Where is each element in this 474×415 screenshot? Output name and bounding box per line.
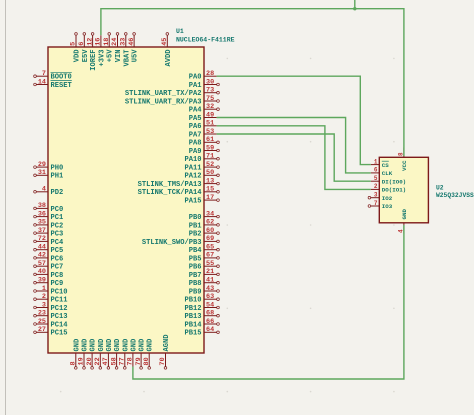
svg-text:U5V: U5V (132, 49, 140, 63)
svg-text:79: 79 (135, 357, 143, 365)
svg-text:VCC: VCC (401, 160, 408, 171)
U1 pin 6 (E5V) top (78, 33, 90, 63)
U1 pin 70 (AGND) bottom (159, 334, 171, 369)
svg-text:PB9: PB9 (189, 288, 202, 296)
U1 pin 21 (PB7) right (189, 268, 220, 280)
svg-text:3: 3 (42, 301, 46, 309)
U1 pin 20 (GND) bottom (86, 339, 98, 369)
U1 pin 62 (PB1) right (189, 219, 220, 231)
svg-text:PA7: PA7 (189, 131, 202, 139)
svg-text:PB4: PB4 (189, 247, 203, 255)
svg-text:PC15: PC15 (51, 330, 68, 338)
svg-text:GND: GND (114, 339, 122, 352)
svg-text:32: 32 (206, 103, 214, 111)
U1 pin 40 (PC8) left (34, 268, 64, 280)
U2 pin 6 (CLK) left (371, 167, 393, 177)
svg-text:PA4: PA4 (189, 107, 203, 115)
svg-text:47: 47 (102, 357, 110, 365)
U1 pin 75 (STLINK_UART_RX/PA3) right (125, 95, 219, 107)
svg-text:PA5: PA5 (189, 115, 202, 123)
U1 pin 59 (PA9) right (189, 144, 220, 156)
svg-text:VIN: VIN (115, 50, 123, 63)
svg-text:18: 18 (103, 38, 111, 46)
svg-text:PC11: PC11 (51, 297, 68, 305)
U1 pin 77 (GND) bottom (119, 339, 131, 369)
svg-text:STLINK_UART_TX/PA2: STLINK_UART_TX/PA2 (125, 90, 202, 98)
svg-text:PA8: PA8 (189, 140, 202, 148)
svg-text:2: 2 (374, 183, 378, 190)
U2 body W25Q32JVSS (379, 157, 428, 223)
U1 pin 61 (PA8) right (189, 136, 220, 148)
U1 pin 49 (PA5) right (189, 111, 217, 123)
svg-text:29: 29 (38, 161, 46, 169)
svg-text:VDD: VDD (74, 50, 82, 63)
U1 pin 51 (PA6) right (189, 120, 217, 132)
svg-text:53: 53 (206, 128, 214, 136)
svg-text:DI(IO0): DI(IO0) (382, 178, 406, 185)
U1 pin 73 (STLINK_UART_TX/PA2) right (125, 87, 219, 99)
U1 pin 44 (PC5) left (34, 244, 64, 256)
U2 pin 3 (IO2) left (368, 192, 393, 202)
svg-text:36: 36 (38, 210, 46, 218)
svg-text:PC14: PC14 (51, 321, 69, 329)
svg-text:80: 80 (143, 357, 151, 365)
svg-text:GND: GND (139, 339, 147, 352)
svg-text:PB2: PB2 (189, 231, 202, 239)
svg-text:49: 49 (206, 111, 214, 119)
U1 pin 57 (PC7) left (34, 260, 64, 272)
svg-text:PC4: PC4 (51, 239, 65, 247)
svg-text:28: 28 (206, 70, 214, 78)
svg-text:24: 24 (111, 38, 119, 46)
svg-text:68: 68 (206, 310, 214, 318)
svg-text:70: 70 (159, 357, 167, 365)
svg-text:IOREF: IOREF (90, 50, 98, 71)
svg-text:PC5: PC5 (51, 247, 64, 255)
svg-text:PB14: PB14 (184, 321, 202, 329)
U1 pin 78 (GND) bottom (127, 339, 139, 367)
svg-text:GND: GND (82, 339, 90, 352)
svg-text:23: 23 (38, 310, 46, 318)
svg-text:PC7: PC7 (51, 264, 64, 272)
svg-text:72: 72 (38, 235, 46, 243)
wire SPI MISO net: PA6 to U2 DO(IO1) (217, 126, 371, 190)
svg-text:E5V: E5V (82, 49, 90, 63)
svg-text:DO(IO1): DO(IO1) (382, 187, 406, 194)
svg-text:PC8: PC8 (51, 272, 64, 280)
svg-text:17: 17 (206, 194, 214, 202)
svg-text:14: 14 (38, 78, 46, 86)
svg-text:30: 30 (206, 78, 214, 86)
svg-text:19: 19 (78, 357, 86, 365)
U1 pin 14 (RESET) left (34, 78, 73, 90)
svg-text:STLINK_UART_RX/PA3: STLINK_UART_RX/PA3 (125, 98, 202, 106)
svg-text:NUCLEO64-F411RE: NUCLEO64-F411RE (176, 37, 235, 44)
svg-text:PB13: PB13 (184, 313, 201, 321)
svg-text:58: 58 (110, 357, 118, 365)
svg-text:69: 69 (206, 235, 214, 243)
svg-text:PD2: PD2 (51, 189, 64, 197)
U1 pin 3 (PC12) left (34, 301, 68, 313)
U1 body NUCLEO64-F411RE (48, 47, 204, 353)
U1 pin 39 (PC9) left (34, 277, 64, 289)
svg-text:2: 2 (42, 293, 46, 301)
svg-text:AVDD: AVDD (165, 50, 173, 67)
U2 pin 7 (IO3) left (368, 200, 393, 210)
svg-text:45: 45 (161, 38, 169, 46)
svg-text:43: 43 (206, 285, 214, 293)
U1 pin 34 (PB0) right (189, 210, 220, 222)
U1 pin 52 (PA11) right (184, 161, 219, 173)
U2 pin 1 (CS) left (371, 158, 389, 168)
U1 pin 71 (PA10) right (184, 153, 219, 165)
U1 pin 67 (PB5) right (189, 252, 220, 264)
wire SPI MOSI net: PA7 to U2 DI(IO0) (217, 134, 371, 181)
wire +3V3 net branch to off-screen top (354, 0, 356, 9)
U1 pin 66 (PB14) right (184, 318, 219, 330)
svg-text:PB12: PB12 (184, 305, 201, 313)
svg-text:35: 35 (38, 219, 46, 227)
U1 pin 63 (PB10) right (184, 293, 219, 305)
svg-text:15: 15 (206, 186, 214, 194)
U1 pin 64 (PB15) right (184, 326, 219, 338)
U1 pin 69 (STLINK_SWO/PB3) right (142, 235, 219, 247)
svg-text:GND: GND (73, 339, 81, 352)
svg-text:AGND: AGND (163, 334, 171, 351)
U1 pin 19 (GND) bottom (78, 339, 90, 369)
svg-text:PA0: PA0 (189, 74, 202, 82)
svg-text:71: 71 (206, 153, 214, 161)
svg-text:78: 78 (127, 357, 135, 365)
wire SPI CLK net: PA5 to U2 CLK (217, 118, 371, 173)
svg-text:1: 1 (374, 158, 378, 165)
svg-text:3: 3 (374, 192, 378, 199)
svg-text:PB5: PB5 (189, 255, 202, 263)
svg-text:VBAT: VBAT (123, 49, 131, 67)
svg-text:27: 27 (38, 326, 46, 334)
svg-text:STLINK_TCK/PA14: STLINK_TCK/PA14 (138, 189, 203, 197)
svg-text:7: 7 (42, 70, 46, 78)
U1 pin 8 (GND) bottom (70, 339, 82, 369)
svg-text:PC9: PC9 (51, 280, 64, 288)
svg-text:PA11: PA11 (184, 165, 201, 173)
U1 pin 7 (BOOT0) left (34, 70, 72, 82)
svg-text:PB0: PB0 (189, 214, 202, 222)
U1 pin 60 (PB2) right (189, 227, 220, 239)
svg-text:6: 6 (374, 167, 378, 174)
U1 pin 55 (PB6) right (189, 260, 220, 272)
svg-text:7: 7 (374, 200, 378, 207)
svg-text:16: 16 (95, 38, 103, 46)
svg-text:PA10: PA10 (184, 156, 201, 164)
U1 pin 72 (PC4) left (34, 235, 64, 247)
U1 pin 27 (PC15) left (34, 326, 68, 338)
svg-text:60: 60 (206, 227, 214, 235)
U1 pin 53 (PA7) right (189, 128, 217, 140)
svg-text:44: 44 (38, 244, 46, 252)
svg-text:20: 20 (86, 357, 94, 365)
svg-text:37: 37 (38, 227, 46, 235)
svg-text:STLINK_TMS/PA13: STLINK_TMS/PA13 (138, 181, 202, 189)
U1 pin 31 (PH1) left (34, 169, 64, 181)
U1 pin 43 (PB9) right (189, 285, 220, 297)
svg-text:25: 25 (38, 318, 46, 326)
svg-text:IO2: IO2 (382, 195, 393, 202)
svg-text:12: 12 (86, 38, 94, 46)
svg-text:+3V3: +3V3 (98, 50, 106, 67)
svg-text:59: 59 (206, 144, 214, 152)
U1 pin 50 (PA12) right (184, 169, 219, 181)
svg-text:5: 5 (70, 42, 78, 46)
svg-text:PB1: PB1 (189, 222, 202, 230)
svg-text:PC10: PC10 (51, 288, 68, 296)
U1 pin 18 (+5V) top (103, 33, 115, 63)
svg-text:PA9: PA9 (189, 148, 202, 156)
svg-text:PA12: PA12 (184, 173, 201, 181)
svg-text:PB10: PB10 (184, 297, 201, 305)
U1 pin 80 (GND) bottom (143, 339, 155, 369)
svg-text:U1: U1 (176, 28, 184, 35)
svg-text:13: 13 (206, 177, 214, 185)
svg-text:PB15: PB15 (184, 330, 201, 338)
junction on +3V3 net (353, 7, 356, 10)
svg-text:PA1: PA1 (189, 82, 202, 90)
U1 pin 46 (U5V) top (128, 33, 140, 63)
U1 pin 37 (PC3) left (34, 227, 64, 239)
svg-text:GND: GND (122, 339, 130, 352)
U2 pin 8 (VCC) top (398, 148, 409, 171)
svg-text:38: 38 (38, 202, 46, 210)
svg-text:PC13: PC13 (51, 313, 68, 321)
U1 pin 29 (PH0) left (34, 161, 64, 173)
sheet border (5, 0, 7, 415)
wire GND net: U1 pin78 to U2 GND (133, 225, 404, 379)
U1 pin 2 (PC11) left (34, 293, 68, 305)
U1 pin 58 (GND) bottom (110, 339, 122, 369)
U1 pin 54 (PB12) right (184, 301, 219, 313)
svg-text:GND: GND (130, 339, 138, 352)
svg-text:54: 54 (206, 301, 214, 309)
svg-text:1: 1 (42, 285, 46, 293)
U1 pin 42 (PC6) left (34, 252, 64, 264)
U2 pin 2 (DO(IO1)) left (371, 183, 406, 193)
U1 pin 38 (PC0) left (34, 202, 64, 214)
svg-text:66: 66 (206, 318, 214, 326)
U1 pin 32 (PA4) right (189, 103, 220, 115)
svg-text:W25Q32JVSS: W25Q32JVSS (436, 192, 474, 199)
svg-text:21: 21 (206, 268, 214, 276)
svg-text:64: 64 (206, 326, 214, 334)
svg-text:4: 4 (42, 186, 46, 194)
svg-text:62: 62 (206, 219, 214, 227)
U1 pin 65 (PB4) right (189, 244, 220, 256)
svg-text:6: 6 (78, 42, 86, 46)
svg-text:PC2: PC2 (51, 222, 64, 230)
svg-text:PC1: PC1 (51, 214, 64, 222)
svg-text:PC12: PC12 (51, 305, 68, 313)
svg-text:50: 50 (206, 169, 214, 177)
svg-text:PA6: PA6 (189, 123, 202, 131)
U2 pin 4 (GND) bottom (398, 209, 409, 234)
U1 pin 28 (PA0) right (189, 70, 217, 82)
svg-text:31: 31 (38, 169, 46, 177)
U1 pin 47 (GND) bottom (102, 339, 114, 369)
wire SPI CS net: PA0 to U2 CS (217, 76, 371, 164)
svg-text:STLINK_SWO/PB3: STLINK_SWO/PB3 (142, 239, 202, 247)
svg-text:U2: U2 (436, 185, 444, 192)
svg-text:PH1: PH1 (51, 173, 64, 181)
U1 pin 33 (VBAT) top (120, 33, 132, 67)
svg-text:+5V: +5V (107, 49, 115, 63)
U1 pin 79 (GND) bottom (135, 339, 147, 369)
U1 pin 41 (PB8) right (189, 277, 220, 289)
U2 pin 5 (DI(IO0)) left (371, 175, 406, 185)
U1 pin 12 (IOREF) top (86, 33, 98, 71)
svg-text:52: 52 (206, 161, 214, 169)
svg-text:GND: GND (90, 339, 98, 352)
svg-text:PH0: PH0 (51, 165, 64, 173)
svg-text:GND: GND (106, 339, 114, 352)
svg-text:PB8: PB8 (189, 280, 202, 288)
svg-text:57: 57 (38, 260, 46, 268)
svg-text:CLK: CLK (382, 170, 393, 177)
svg-text:77: 77 (119, 357, 127, 365)
svg-text:PC6: PC6 (51, 255, 64, 263)
svg-text:PC0: PC0 (51, 206, 64, 214)
U1 pin 4 (PD2) left (34, 186, 64, 198)
svg-text:RESET: RESET (51, 82, 73, 90)
svg-text:46: 46 (128, 38, 136, 46)
U1 pin 5 (VDD) top (70, 33, 82, 63)
svg-text:CS: CS (382, 162, 389, 169)
svg-text:51: 51 (206, 120, 214, 128)
svg-text:PC3: PC3 (51, 231, 64, 239)
svg-text:GND: GND (147, 339, 155, 352)
svg-text:PB7: PB7 (189, 272, 202, 280)
U1 pin 17 (PA15) right (184, 194, 219, 206)
svg-text:PB6: PB6 (189, 264, 202, 272)
svg-text:41: 41 (206, 277, 214, 285)
svg-text:63: 63 (206, 293, 214, 301)
svg-text:PA15: PA15 (184, 198, 201, 206)
U1 pin 16 (+3V3) top (95, 35, 107, 66)
U1 pin 36 (PC1) left (34, 210, 64, 222)
svg-text:GND: GND (401, 209, 408, 220)
svg-text:22: 22 (94, 357, 102, 365)
U1 pin 24 (VIN) top (111, 33, 123, 63)
svg-text:61: 61 (206, 136, 214, 144)
svg-text:75: 75 (206, 95, 214, 103)
U1 pin 15 (STLINK_TCK/PA14) right (138, 186, 220, 198)
U1 pin 68 (PB13) right (184, 310, 219, 322)
svg-text:65: 65 (206, 244, 214, 252)
svg-text:33: 33 (120, 38, 128, 46)
U1 pin 35 (PC2) left (34, 219, 64, 231)
U1 pin 25 (PC14) left (34, 318, 69, 330)
svg-text:39: 39 (38, 277, 46, 285)
U1 pin 22 (GND) bottom (94, 339, 106, 369)
svg-text:67: 67 (206, 252, 214, 260)
U1 pin 13 (STLINK_TMS/PA13) right (138, 177, 220, 189)
wire +3V3 net: U1 pin16 to U2 VCC (101, 9, 404, 156)
svg-text:5: 5 (374, 175, 378, 182)
svg-text:8: 8 (70, 361, 78, 365)
U1 pin 1 (PC10) left (34, 285, 68, 297)
U1 pin 23 (PC13) left (34, 310, 68, 322)
svg-text:42: 42 (38, 252, 46, 260)
svg-text:55: 55 (206, 260, 214, 268)
U1 pin 30 (PA1) right (189, 78, 220, 90)
svg-text:IO3: IO3 (382, 203, 393, 210)
svg-text:GND: GND (98, 339, 106, 352)
svg-text:40: 40 (38, 268, 46, 276)
U1 pin 45 (AVDD) top (161, 33, 173, 67)
svg-text:34: 34 (206, 210, 214, 218)
svg-text:73: 73 (206, 87, 214, 95)
